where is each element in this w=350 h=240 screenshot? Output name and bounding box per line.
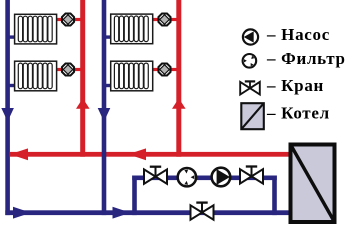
radiator valve 4 [159,64,171,76]
valve V2 on loop [240,167,263,184]
arrow on red main (middle) [128,148,146,160]
valve V1 on loop [144,167,167,184]
wire: navy stub radiator 4 [104,84,112,87]
arrow on navy return (left) [13,207,31,219]
wire: red stub radiator 4 [153,68,179,71]
legend boiler symbol [241,103,263,129]
legend pump symbol [243,29,258,44]
svg-text:– Кран: – Кран [266,76,324,95]
wire: red stub radiator 2 [56,68,83,71]
wire: navy stub radiator 3 [104,35,112,38]
legend valve symbol [240,81,260,94]
wire: red stub radiator 3 [153,18,179,21]
arrow on red riser 1 (up) [76,98,90,108]
radiator 3 [111,14,153,44]
radiator 4 [111,61,153,91]
wire: pump loop right vertical [272,176,277,216]
pump P1 [212,168,231,187]
svg-text:– Насос: – Насос [266,25,330,44]
arrow on navy return (middle) [113,207,131,219]
wire: red riser 2 [176,0,181,157]
wire: navy stub radiator 2 [8,84,16,87]
wire: pump loop left vertical [132,176,137,216]
radiator valve 3 [159,14,171,26]
wire: pump loop top line [132,176,277,181]
wire: red stub radiator 1 [56,18,83,21]
valve V3 on return bypass [191,203,214,220]
arrow on red riser 2 (up) [172,98,186,108]
arrow on navy riser 2 (down) [98,108,111,122]
radiator 2 [15,61,57,91]
arrow on navy riser 1 (down) [1,108,14,122]
wire: red supply main horizontal [10,152,290,157]
radiator 1 [15,14,57,44]
radiator valve 1 [62,14,74,26]
wire: navy return main horizontal [5,210,290,215]
boiler [291,145,335,223]
wire: navy riser 1 [5,0,10,215]
wire: red riser 1 [80,0,85,157]
wire: navy stub radiator 1 [8,35,16,38]
filter F1 [178,168,196,186]
arrow on red main (left, at riser 1) [10,148,28,160]
svg-text:– Фильтр: – Фильтр [266,49,346,68]
radiator valve 2 [62,64,74,76]
svg-text:– Котел: – Котел [266,103,330,122]
wire: navy riser 2 [102,0,107,215]
legend filter symbol [243,54,257,68]
